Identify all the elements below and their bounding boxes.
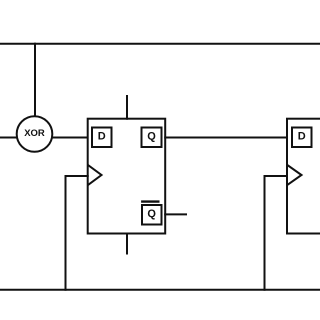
wire: clock feed to U2	[66, 176, 88, 290]
wire: clear stub below U2	[126, 234, 128, 254]
svg-text:D: D	[98, 131, 106, 143]
wire: top clock bus	[0, 43, 320, 45]
svg-text:Q: Q	[147, 131, 156, 143]
svg-text:XOR: XOR	[24, 128, 45, 139]
wire: Q-bar output stub of U2	[165, 213, 186, 215]
wire: bottom feedback bus	[0, 289, 320, 291]
wire: Q of U2 to D input of U3	[165, 137, 287, 139]
flip-flop U2 body	[88, 119, 166, 234]
svg-text:D: D	[298, 131, 306, 143]
wire: XOR output to D input of U2	[52, 137, 87, 139]
pin label D of U2	[92, 128, 112, 148]
wire: left input into XOR gate	[0, 137, 17, 139]
flip-flop U3 body	[287, 119, 320, 234]
pin label D of U3	[292, 128, 312, 148]
svg-text:Q: Q	[147, 208, 156, 220]
pin label Q-bar of U2	[142, 202, 162, 225]
wire: top bus down to XOR gate	[34, 44, 36, 117]
clock input triangle of U3	[288, 166, 302, 185]
clock input triangle of U2	[89, 166, 102, 185]
wire: preset stub above U2	[126, 96, 128, 119]
pin label Q of U2	[142, 128, 162, 148]
xor gate U1	[17, 116, 53, 152]
wire: clock feed to U3	[265, 176, 288, 290]
